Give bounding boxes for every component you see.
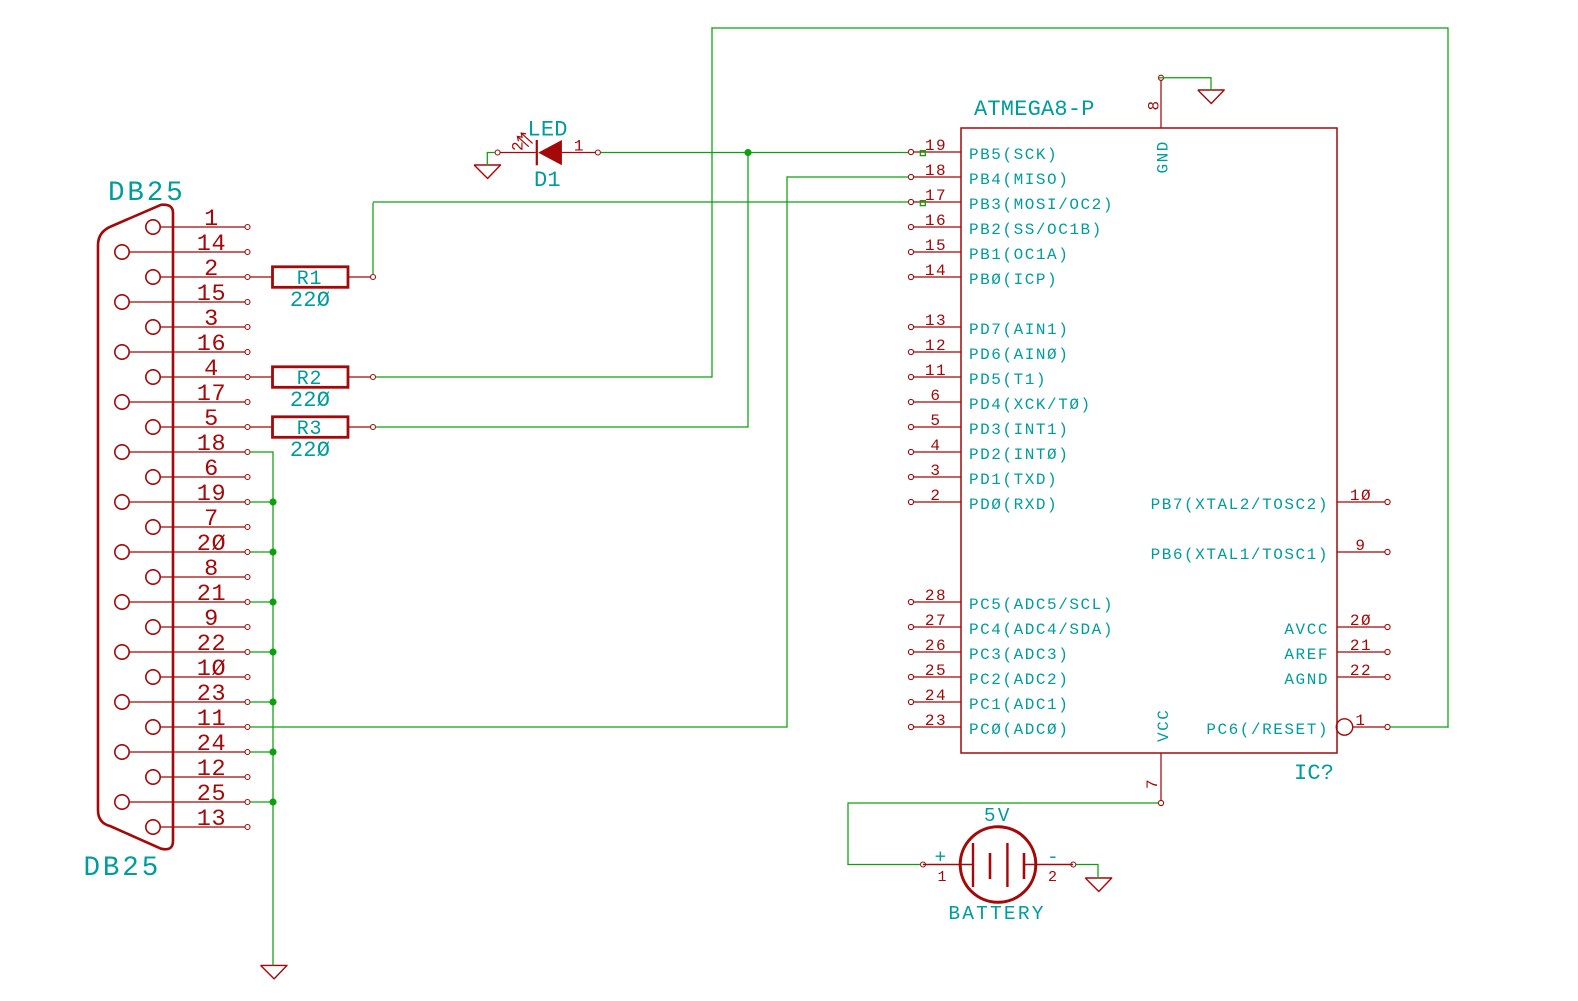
connector X1 pin 10: [146, 656, 250, 684]
connector X1 pin 16: [115, 331, 250, 359]
IC1 pin 2 PD0(RXD): [908, 487, 1058, 514]
wire net GND: DB25 stub at y=602: [250, 601, 273, 603]
wire net GND: DB25 chain vertical: [272, 451, 274, 965]
wire net RESET: R2 to vertical: [376, 376, 712, 378]
svg-text:D1: D1: [534, 168, 561, 193]
svg-text:5V: 5V: [984, 805, 1012, 827]
connector X1 pin 6: [146, 456, 250, 484]
IC1 pin 24 PC1(ADC1): [908, 687, 1069, 714]
wire net RESET: top horizontal: [711, 27, 1448, 29]
svg-text:2: 2: [204, 256, 219, 283]
svg-text:12: 12: [197, 756, 226, 783]
connector X1 pin 7: [146, 506, 250, 534]
connector X1 pin 3: [146, 306, 250, 334]
wire net GND: DB25 stub at y=702: [250, 701, 273, 703]
resistor R1: [250, 267, 376, 288]
svg-text:1Ø: 1Ø: [1350, 487, 1372, 505]
connector X1 pin 11: [146, 706, 250, 734]
svg-text:2: 2: [930, 487, 941, 505]
svg-text:8: 8: [1146, 99, 1164, 110]
IC1 pin 27 PC4(ADC4/SDA): [908, 612, 1114, 639]
svg-text:PC2(ADC2): PC2(ADC2): [969, 671, 1069, 689]
wire net GND: IC pin 8 horizontal: [1158, 77, 1211, 79]
svg-text:PD2(INTØ): PD2(INTØ): [969, 446, 1069, 464]
svg-text:5: 5: [204, 406, 219, 433]
svg-text:AGND: AGND: [1284, 671, 1329, 689]
svg-text:PC3(ADC3): PC3(ADC3): [969, 646, 1069, 664]
svg-text:1: 1: [574, 138, 585, 156]
IC1 pin 15 PB1(OC1A): [908, 237, 1069, 264]
svg-text:PD3(INT1): PD3(INT1): [969, 421, 1069, 439]
IC1 pin 14 PB0(ICP): [908, 262, 1058, 289]
svg-text:27: 27: [925, 612, 947, 630]
wire net RESET: to IC pin 1: [1390, 726, 1449, 728]
IC1 pin 12 PD6(AIN0): [908, 337, 1069, 364]
svg-text:PBØ(ICP): PBØ(ICP): [969, 271, 1058, 289]
svg-text:7: 7: [1144, 778, 1162, 789]
svg-text:22Ø: 22Ø: [290, 388, 330, 413]
svg-text:PC4(ADC4/SDA): PC4(ADC4/SDA): [969, 621, 1114, 639]
svg-text:23: 23: [925, 712, 947, 730]
svg-text:18: 18: [925, 162, 947, 180]
svg-text:PB2(SS/OC1B): PB2(SS/OC1B): [969, 221, 1103, 239]
svg-text:5: 5: [930, 412, 941, 430]
IC1 pin 5 PD3(INT1): [908, 412, 1069, 439]
wire net GND: DB25 stub at y=502: [250, 501, 273, 503]
svg-text:PB7(XTAL2/TOSC2): PB7(XTAL2/TOSC2): [1151, 496, 1329, 514]
svg-text:22Ø: 22Ø: [290, 288, 330, 313]
wire net RESET: vertical up: [711, 27, 713, 377]
battery G1: [921, 827, 1076, 903]
wire net GND: battery - down to ground: [1097, 864, 1099, 879]
svg-text:28: 28: [925, 587, 947, 605]
svg-text:IC?: IC?: [1294, 761, 1334, 786]
svg-text:4: 4: [204, 356, 219, 383]
svg-text:PB4(MISO): PB4(MISO): [969, 171, 1069, 189]
connector X1 pin 19: [115, 481, 250, 509]
wire GND stub down (LED): [486, 153, 488, 166]
connector X1 pin 4: [146, 356, 250, 384]
svg-text:2: 2: [1048, 869, 1058, 886]
junction net GND chain at (273,652): [270, 649, 277, 656]
svg-text:2: 2: [510, 140, 528, 151]
junction net GND chain at (273,752): [270, 749, 277, 756]
wire-end square at IC pin 17: [920, 201, 925, 206]
connector X1 pin 20: [115, 531, 250, 559]
IC1 pin 22 AGND: [1284, 662, 1390, 689]
IC1 pin 18 PB4(MISO): [908, 162, 1069, 189]
wire net VCC: IC pin 7 horizontal: [848, 802, 1158, 804]
wire net GND: battery - stub: [1076, 864, 1098, 866]
IC1 pin 25 PC2(ADC2): [908, 662, 1069, 689]
svg-text:22: 22: [1350, 662, 1372, 680]
svg-text:21: 21: [1350, 637, 1372, 655]
IC1 pin 17 PB3(MOSI/OC2): [908, 187, 1114, 214]
wire net PB4: horizontal to DB25 pin 11: [250, 726, 788, 728]
svg-text:21: 21: [197, 581, 226, 608]
svg-text:14: 14: [925, 262, 947, 280]
svg-text:3: 3: [204, 306, 219, 333]
svg-text:AREF: AREF: [1284, 646, 1329, 664]
svg-text:6: 6: [930, 387, 941, 405]
IC1 pin 11 PD5(T1): [908, 362, 1047, 389]
svg-text:PC5(ADC5/SCL): PC5(ADC5/SCL): [969, 596, 1114, 614]
svg-text:PC1(ADC1): PC1(ADC1): [969, 696, 1069, 714]
svg-text:PB1(OC1A): PB1(OC1A): [969, 246, 1069, 264]
svg-text:ATMEGA8-P: ATMEGA8-P: [974, 97, 1095, 122]
resistor R3: [250, 417, 376, 438]
IC1 pin 1 PC6(/RESET): [1206, 712, 1390, 739]
svg-text:15: 15: [197, 281, 226, 308]
IC1 pin 23 PC0(ADC0): [908, 712, 1069, 739]
wire net GND: IC pin 8 down to ground: [1210, 77, 1212, 90]
svg-text:22: 22: [197, 631, 226, 658]
connector X1 pin 18: [115, 431, 250, 459]
wire net PB5: horizontal to R3: [376, 426, 749, 428]
svg-text:9: 9: [1355, 537, 1366, 555]
svg-text:17: 17: [925, 187, 947, 205]
svg-text:AVCC: AVCC: [1284, 621, 1329, 639]
wire net VCC: to battery +: [847, 864, 920, 866]
wire net GND: DB25 pin 18 stub: [250, 451, 273, 453]
svg-text:16: 16: [197, 331, 226, 358]
svg-text:BATTERY: BATTERY: [948, 903, 1045, 925]
wire net VCC: vertical: [847, 802, 849, 865]
junction net GND chain at (273,552): [270, 549, 277, 556]
svg-text:-: -: [1047, 847, 1061, 869]
svg-text:2Ø: 2Ø: [197, 531, 226, 558]
IC1 pin 20 AVCC: [1284, 612, 1390, 639]
wire GND stub horizontal (LED): [487, 152, 496, 154]
IC1 pin 16 PB2(SS/OC1B): [908, 212, 1102, 239]
svg-text:6: 6: [204, 456, 219, 483]
connector X1 pin 1: [146, 206, 250, 234]
svg-text:PDØ(RXD): PDØ(RXD): [969, 496, 1058, 514]
svg-text:PB6(XTAL1/TOSC1): PB6(XTAL1/TOSC1): [1151, 546, 1329, 564]
connector X1 DB25 body: [98, 205, 173, 850]
svg-text:PB3(MOSI/OC2): PB3(MOSI/OC2): [969, 196, 1114, 214]
svg-text:+: +: [935, 847, 949, 869]
svg-text:PD4(XCK/TØ): PD4(XCK/TØ): [969, 396, 1092, 414]
connector X1 pin 15: [115, 281, 250, 309]
svg-text:17: 17: [197, 381, 226, 408]
junction net PB5/R3 at (748,152.5): [745, 149, 752, 156]
connector X1 pin 5: [146, 406, 250, 434]
IC1 pin 4 PD2(INT0): [908, 437, 1069, 464]
resistor R2: [250, 367, 376, 388]
wire net GND: DB25 stub at y=802: [250, 801, 273, 803]
wire net GND: DB25 stub at y=552: [250, 551, 273, 553]
connector X1 pin 12: [146, 756, 250, 784]
svg-text:1: 1: [937, 869, 947, 886]
IC1 pin 10 PB7(XTAL2/TOSC2): [1151, 487, 1391, 514]
connector X1 pin 13: [146, 806, 250, 834]
svg-text:PC6(/RESET): PC6(/RESET): [1206, 721, 1329, 739]
junction net GND chain at (273,602): [270, 599, 277, 606]
IC1 pin 6 PD4(XCK/T0): [908, 387, 1091, 414]
svg-text:25: 25: [197, 781, 226, 808]
wire-end square at IC pin 19: [920, 151, 925, 156]
connector X1 pin 2: [146, 256, 250, 284]
connector X1 pin 24: [115, 731, 250, 759]
wire net PB5: vertical to R3: [747, 152, 749, 427]
wire net PB3: IC pin 17 horizontal: [373, 201, 908, 203]
connector X1 pin 22: [115, 631, 250, 659]
svg-text:24: 24: [197, 731, 226, 758]
svg-text:PD1(TXD): PD1(TXD): [969, 471, 1058, 489]
svg-text:1: 1: [204, 206, 219, 233]
svg-text:11: 11: [197, 706, 226, 733]
svg-text:25: 25: [925, 662, 947, 680]
svg-text:VCC: VCC: [1155, 709, 1173, 742]
wire net GND: DB25 stub at y=652: [250, 651, 273, 653]
IC1 pin 13 PD7(AIN1): [908, 312, 1069, 339]
svg-text:LED: LED: [528, 118, 568, 143]
connector X1 pin 9: [146, 606, 250, 634]
svg-text:1: 1: [1355, 712, 1366, 730]
svg-text:15: 15: [925, 237, 947, 255]
svg-text:24: 24: [925, 687, 947, 705]
wire net PB4: vertical: [786, 176, 788, 727]
svg-text:14: 14: [197, 231, 226, 258]
svg-text:GND: GND: [1155, 140, 1173, 173]
svg-text:PB5(SCK): PB5(SCK): [969, 146, 1058, 164]
svg-text:PD6(AINØ): PD6(AINØ): [969, 346, 1069, 364]
connector X1 pin 14: [115, 231, 250, 259]
IC1 pin 3 PD1(TXD): [908, 462, 1058, 489]
connector X1 pin 21: [115, 581, 250, 609]
svg-text:26: 26: [925, 637, 947, 655]
svg-text:9: 9: [204, 606, 219, 633]
connector X1 pin 17: [115, 381, 250, 409]
wire net PB3: vertical to R1: [372, 203, 374, 275]
IC1 pin 21 AREF: [1284, 637, 1390, 664]
svg-text:13: 13: [925, 312, 947, 330]
IC1 pin 19 PB5(SCK): [908, 137, 1058, 164]
svg-text:PCØ(ADCØ): PCØ(ADCØ): [969, 721, 1069, 739]
junction net GND chain at (273,802): [270, 799, 277, 806]
svg-text:11: 11: [925, 362, 947, 380]
ground symbol (DB25 chain): [261, 965, 287, 979]
connector X1 pin 8: [146, 556, 250, 584]
svg-text:PD5(T1): PD5(T1): [969, 371, 1047, 389]
svg-text:3: 3: [930, 462, 941, 480]
op IC1 ATMEGA8-P body: [961, 128, 1337, 753]
IC1 pin 9 PB6(XTAL1/TOSC1): [1151, 537, 1391, 564]
svg-text:2Ø: 2Ø: [1350, 612, 1372, 630]
svg-text:4: 4: [930, 437, 941, 455]
svg-text:23: 23: [197, 681, 226, 708]
svg-text:7: 7: [204, 506, 219, 533]
IC1 pin 7 VCC (bottom): [1144, 709, 1173, 806]
LED D1 light arrows: [517, 133, 532, 147]
IC1 pin 26 PC3(ADC3): [908, 637, 1069, 664]
connector X1 pin 23: [115, 681, 250, 709]
svg-text:DB25: DB25: [84, 853, 162, 884]
wire net RESET: right vertical: [1447, 27, 1449, 727]
ground symbol (battery minus): [1085, 878, 1111, 892]
LED D1: [495, 140, 600, 165]
svg-text:19: 19: [197, 481, 226, 508]
junction net GND chain at (273,702): [270, 699, 277, 706]
svg-text:22Ø: 22Ø: [290, 438, 330, 463]
svg-text:16: 16: [925, 212, 947, 230]
wire net PB4: IC pin 18 horizontal: [787, 176, 908, 178]
svg-text:8: 8: [204, 556, 219, 583]
IC1 pin 28 PC5(ADC5/SCL): [908, 587, 1114, 614]
IC1 pin 8 GND (top): [1146, 75, 1173, 173]
ground symbol (LED cathode): [474, 165, 500, 179]
svg-text:18: 18: [197, 431, 226, 458]
svg-text:PD7(AIN1): PD7(AIN1): [969, 321, 1069, 339]
svg-text:DB25: DB25: [108, 178, 186, 209]
svg-text:1Ø: 1Ø: [197, 656, 226, 683]
wire net GND: DB25 stub at y=752: [250, 751, 273, 753]
svg-text:12: 12: [925, 337, 947, 355]
wire net PB5: LED anode to IC pin 19: [601, 152, 909, 154]
svg-text:13: 13: [197, 806, 226, 833]
svg-text:19: 19: [925, 137, 947, 155]
junction net GND chain at (273,502): [270, 499, 277, 506]
connector X1 pin 25: [115, 781, 250, 809]
ground symbol (IC pin 8): [1198, 90, 1224, 104]
